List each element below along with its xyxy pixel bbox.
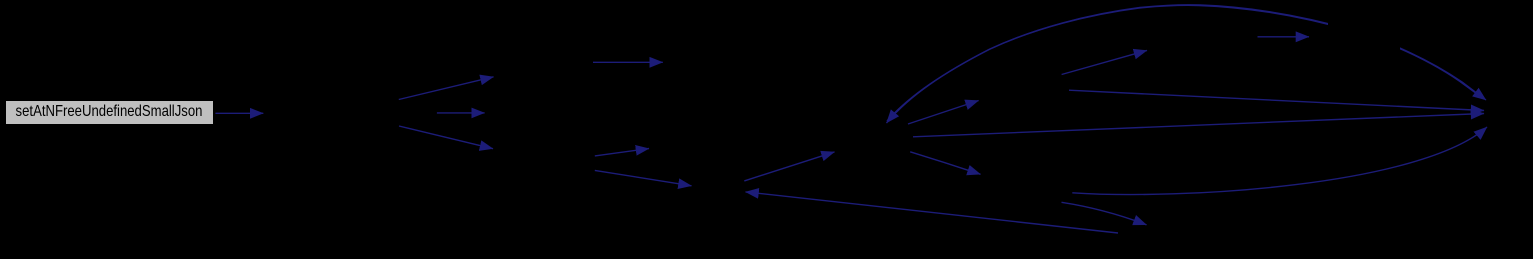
edge n7a->nT: [1258, 36, 1310, 38]
edge n6a->n7a: [1062, 50, 1147, 74]
edge hub->n8 top curve: [887, 5, 1486, 121]
node setAtNFreeUndefinedSmallJson: [6, 101, 213, 124]
edge n2->n3a: [399, 77, 494, 100]
edge n3c->n4c: [595, 170, 692, 185]
edge n6b->n8 curve: [1072, 127, 1487, 195]
edge n2b->n3b: [437, 112, 485, 114]
edge n8->hub top curve (back): [887, 5, 1485, 123]
edge n2->n3c: [399, 126, 493, 149]
edge hub->n6a: [908, 101, 979, 125]
edge n1->n2: [215, 112, 263, 114]
edge n4c->hub: [744, 152, 834, 181]
edge n6a->n8 long: [1069, 90, 1484, 110]
edge n7b->n4c back: [746, 192, 1119, 233]
edge n6b->n7b: [1062, 202, 1147, 225]
edge n3a->n4a: [593, 61, 663, 63]
edge hub->n6b: [910, 152, 980, 175]
edge hub->n8 long: [913, 114, 1484, 137]
node T (invisible, occludes top curve): [1328, 18, 1400, 54]
edge n3c->n4b: [595, 149, 649, 156]
